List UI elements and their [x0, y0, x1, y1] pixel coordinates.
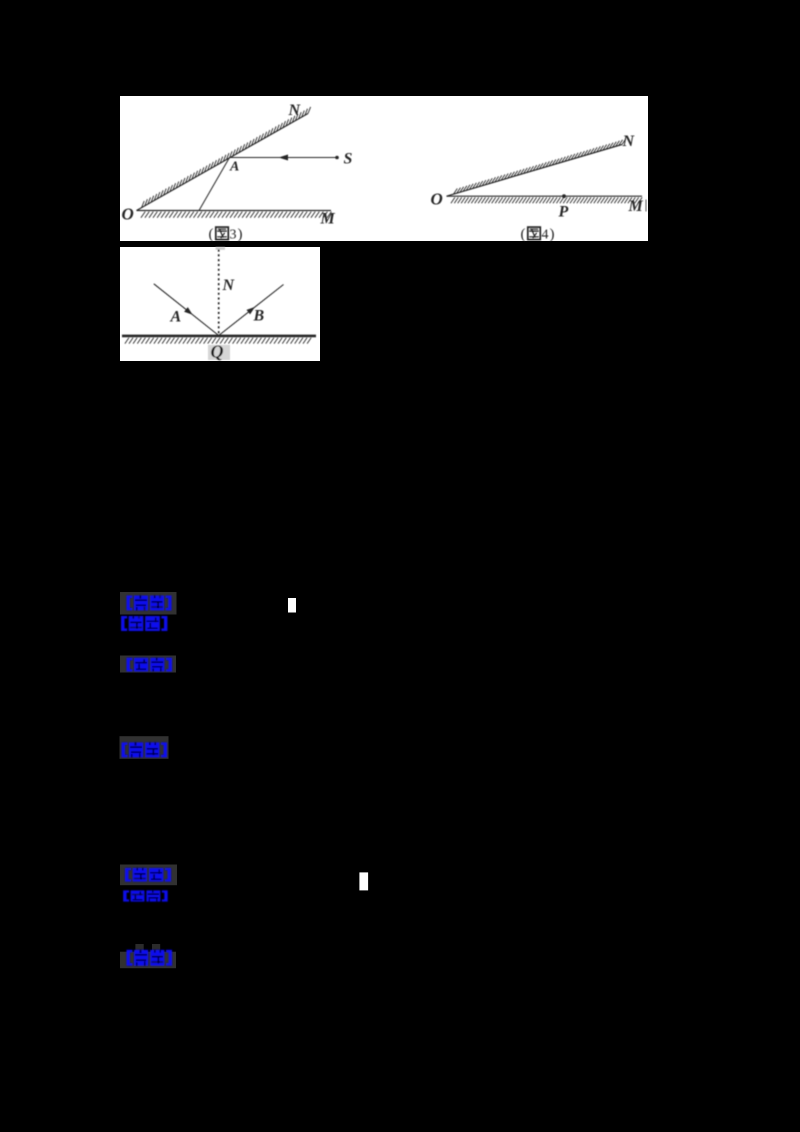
- blue labels svg: [0, 560, 800, 1132]
- fig5 incident ray A: [154, 284, 219, 336]
- svg-text:M: M: [320, 211, 336, 228]
- fig4 line ON (sloped): [447, 145, 623, 197]
- fig3 line A to OM: [199, 158, 230, 211]
- figure box 1 (图3 and 图4): [0, 0, 800, 400]
- fig4 tick after M: [645, 200, 647, 212]
- fig3 mirror ON (sloped): [137, 114, 309, 211]
- fig4 hatching on ON: [454, 139, 626, 194]
- white caret 1: [288, 598, 296, 613]
- label 2 【分析】: [121, 616, 167, 631]
- fig5 mirror line: [122, 335, 316, 338]
- label 5 【考点】 highlight: [120, 865, 177, 886]
- fig4 point P: [562, 194, 566, 198]
- svg-text:A: A: [229, 160, 239, 175]
- svg-text:P: P: [558, 204, 569, 221]
- fig3 ray S to A: [230, 157, 338, 159]
- svg-text:): ): [238, 227, 243, 243]
- svg-text:B: B: [253, 308, 265, 325]
- svg-text:N: N: [222, 277, 236, 294]
- fig3 hatching on ON: [142, 107, 311, 208]
- svg-text:(: (: [521, 227, 526, 243]
- label 6 【分析】: [123, 890, 167, 902]
- fig5 gray nub top of normal: [216, 247, 225, 250]
- svg-text:S: S: [344, 151, 353, 168]
- label 7 【解答】 highlight: [120, 952, 176, 969]
- fig3 mirror OM (horizontal): [137, 210, 332, 212]
- svg-text:3: 3: [230, 228, 237, 243]
- fig4 hatching on OM: [451, 197, 642, 203]
- fig5 normal dotted line: [218, 250, 220, 336]
- dark nubs above label 7: [135, 944, 143, 952]
- white caret 2: [359, 872, 368, 890]
- svg-text:O: O: [122, 205, 134, 224]
- svg-text:Q: Q: [211, 342, 224, 362]
- label 1 【考点】 highlight: [120, 592, 177, 615]
- fig3 hatching on OM: [141, 212, 332, 218]
- svg-text:N: N: [622, 133, 636, 150]
- label 3 【解答】 highlight: [120, 656, 176, 673]
- label 4 【点评】 highlight: [120, 736, 169, 759]
- svg-text:O: O: [431, 190, 443, 209]
- fig5 reflected ray B: [219, 285, 284, 336]
- svg-text:(: (: [209, 227, 214, 243]
- fig5 hatching: [125, 338, 311, 344]
- svg-text:M: M: [628, 198, 644, 215]
- fig5 gray rect behind Q: [208, 345, 230, 360]
- fig4 line OM (horizontal): [447, 195, 643, 197]
- svg-text:4: 4: [542, 228, 549, 243]
- svg-text:A: A: [170, 309, 182, 326]
- svg-text:N: N: [288, 102, 302, 119]
- svg-text:): ): [550, 227, 555, 243]
